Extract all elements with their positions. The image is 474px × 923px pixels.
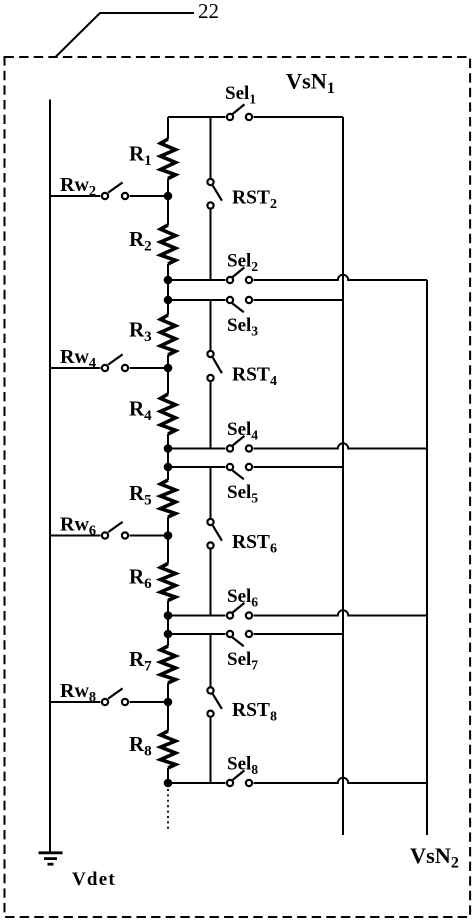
svg-text:Sel6: Sel6 (227, 586, 258, 610)
svg-text:VsN2: VsN2 (410, 843, 459, 872)
svg-text:R1: R1 (129, 141, 152, 169)
svg-text:RST2: RST2 (232, 188, 277, 213)
svg-text:R5: R5 (129, 481, 152, 509)
svg-text:Rw4: Rw4 (60, 346, 96, 372)
svg-text:RST4: RST4 (232, 365, 277, 390)
svg-text:Sel1: Sel1 (225, 83, 256, 107)
svg-text:22: 22 (198, 0, 219, 23)
svg-text:RST6: RST6 (232, 532, 277, 557)
svg-text:R2: R2 (129, 227, 152, 255)
svg-text:Rw8: Rw8 (60, 680, 96, 706)
svg-text:R8: R8 (129, 732, 152, 760)
svg-text:VsN1: VsN1 (286, 69, 335, 98)
svg-text:Sel8: Sel8 (227, 754, 258, 778)
svg-text:Rw6: Rw6 (60, 514, 96, 540)
svg-text:R4: R4 (129, 397, 152, 425)
svg-text:R7: R7 (129, 647, 152, 675)
svg-text:Sel3: Sel3 (227, 315, 258, 339)
svg-text:Vdet: Vdet (72, 869, 116, 890)
svg-text:R3: R3 (129, 318, 152, 346)
svg-text:Sel4: Sel4 (227, 419, 258, 443)
svg-text:Sel7: Sel7 (227, 649, 258, 673)
svg-text:Rw2: Rw2 (60, 174, 96, 200)
svg-text:RST8: RST8 (232, 700, 277, 725)
svg-text:R6: R6 (129, 565, 152, 593)
svg-text:Sel5: Sel5 (227, 482, 258, 506)
svg-text:Sel2: Sel2 (227, 251, 258, 275)
